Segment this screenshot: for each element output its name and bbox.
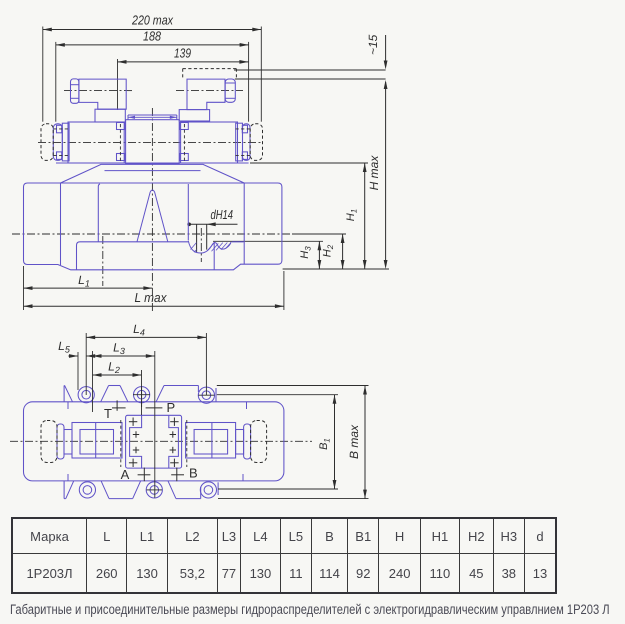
svg-text:H2: H2 bbox=[322, 244, 336, 257]
svg-text:L max: L max bbox=[135, 290, 167, 305]
svg-text:dH14: dH14 bbox=[211, 207, 234, 222]
svg-text:L5: L5 bbox=[58, 339, 71, 355]
svg-text:L4: L4 bbox=[133, 322, 145, 338]
svg-text:L3: L3 bbox=[113, 341, 125, 357]
svg-text:B: B bbox=[189, 466, 198, 481]
svg-text:H1: H1 bbox=[345, 209, 359, 221]
svg-text:H3: H3 bbox=[299, 246, 313, 259]
svg-text:T: T bbox=[104, 406, 112, 421]
svg-text:220 max: 220 max bbox=[131, 13, 173, 28]
svg-text:B max: B max bbox=[347, 424, 361, 459]
svg-text:188: 188 bbox=[143, 29, 162, 44]
svg-text:H max: H max bbox=[367, 155, 381, 191]
svg-text:L2: L2 bbox=[108, 360, 120, 376]
svg-text:A: A bbox=[121, 467, 130, 482]
svg-text:~15: ~15 bbox=[366, 34, 380, 55]
svg-text:L1: L1 bbox=[78, 273, 90, 289]
svg-text:P: P bbox=[167, 400, 176, 415]
svg-text:B1: B1 bbox=[318, 438, 332, 450]
svg-text:139: 139 bbox=[174, 46, 191, 61]
